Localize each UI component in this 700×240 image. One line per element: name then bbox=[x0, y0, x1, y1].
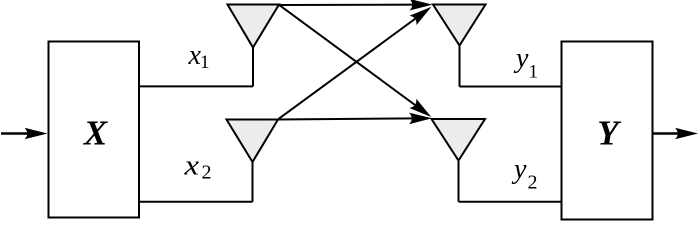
svg-text:1: 1 bbox=[529, 62, 539, 83]
svg-text:y: y bbox=[513, 43, 529, 74]
wire y2 bbox=[459, 201, 562, 203]
amplifier triangle BR (bottom-right) bbox=[432, 119, 486, 161]
input arrow bbox=[1, 128, 48, 140]
arrow BL to TR (ascending diagonal) bbox=[278, 2, 435, 119]
wire x2 bbox=[139, 201, 253, 203]
svg-text:1: 1 bbox=[200, 52, 210, 73]
arrow TL to BR (descending diagonal) bbox=[279, 5, 435, 122]
block X bbox=[49, 42, 140, 218]
output arrow bbox=[654, 128, 699, 140]
wire y1 bbox=[460, 86, 562, 88]
stem of TL triangle bbox=[252, 48, 254, 87]
arrow BL to BR (bottom horizontal) bbox=[278, 113, 432, 125]
block Y bbox=[562, 42, 653, 220]
amplifier triangle BL (bottom-left) bbox=[227, 120, 279, 163]
svg-text:Y: Y bbox=[597, 114, 622, 153]
svg-text:x: x bbox=[183, 151, 199, 182]
svg-text:2: 2 bbox=[202, 162, 212, 184]
svg-text:2: 2 bbox=[528, 172, 538, 194]
amplifier triangle TL (top-left) bbox=[228, 5, 280, 48]
stem of TR triangle bbox=[459, 46, 461, 87]
stem of BR triangle bbox=[458, 161, 460, 202]
svg-text:y: y bbox=[511, 154, 527, 185]
svg-text:X: X bbox=[83, 114, 109, 153]
wire x1 bbox=[139, 85, 253, 87]
arrow TL to TR (top horizontal) bbox=[279, 0, 433, 10]
amplifier triangle TR (top-right) bbox=[433, 5, 486, 46]
stem of BL triangle bbox=[252, 162, 254, 202]
